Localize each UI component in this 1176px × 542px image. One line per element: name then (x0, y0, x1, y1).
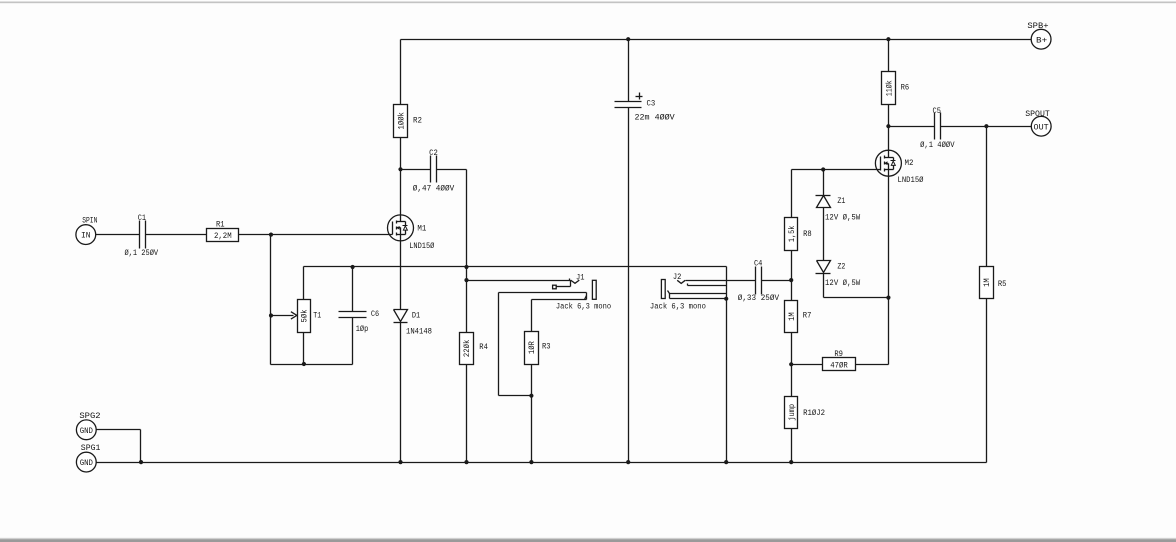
svg-text:GND: GND (80, 426, 93, 436)
svg-text:Ø,1 25ØV: Ø,1 25ØV (124, 248, 158, 258)
svg-text:11Øk: 11Øk (885, 80, 895, 96)
svg-text:R2: R2 (413, 116, 422, 126)
svg-text:C3: C3 (647, 99, 656, 109)
svg-text:LND15Ø: LND15Ø (898, 175, 924, 185)
svg-text:D1: D1 (412, 311, 420, 321)
svg-text:R5: R5 (998, 279, 1007, 289)
svg-text:R9: R9 (834, 349, 843, 359)
svg-text:Ø,47 4ØØV: Ø,47 4ØØV (413, 184, 455, 194)
svg-text:Ø,1 4ØØV: Ø,1 4ØØV (920, 140, 955, 150)
svg-text:C4: C4 (754, 258, 763, 268)
svg-text:IN: IN (81, 231, 91, 241)
svg-text:12V Ø,5W: 12V Ø,5W (825, 213, 861, 223)
svg-text:1,5k: 1,5k (787, 226, 797, 243)
svg-text:1ØR: 1ØR (527, 341, 537, 354)
svg-text:T1: T1 (313, 310, 321, 320)
svg-text:Ø,33 25ØV: Ø,33 25ØV (738, 293, 780, 303)
svg-text:SPG1: SPG1 (81, 443, 101, 453)
svg-text:J1: J1 (576, 272, 585, 282)
svg-text:R1: R1 (216, 219, 225, 229)
svg-text:R4: R4 (479, 342, 488, 352)
svg-text:12V Ø,5W: 12V Ø,5W (825, 278, 861, 288)
svg-text:1M: 1M (982, 278, 992, 287)
svg-text:SPIN: SPIN (82, 216, 97, 226)
svg-text:1N4148: 1N4148 (406, 326, 432, 336)
svg-text:2,2M: 2,2M (214, 231, 232, 241)
svg-text:R3: R3 (542, 342, 551, 352)
svg-text:1M: 1M (787, 312, 797, 321)
svg-text:R1ØJ2: R1ØJ2 (803, 408, 825, 418)
svg-text:R6: R6 (901, 82, 910, 92)
svg-text:OUT: OUT (1034, 123, 1049, 133)
svg-text:R8: R8 (803, 229, 812, 239)
svg-text:jump: jump (787, 404, 797, 421)
svg-text:Jack 6,3 mono: Jack 6,3 mono (650, 301, 706, 311)
svg-text:M1: M1 (417, 224, 426, 234)
svg-text:LND15Ø: LND15Ø (409, 241, 434, 251)
svg-text:SPG2: SPG2 (79, 411, 100, 421)
svg-text:1ØØk: 1ØØk (397, 112, 407, 130)
svg-text:SPOUT: SPOUT (1025, 109, 1050, 119)
svg-text:J2: J2 (673, 272, 682, 282)
svg-text:SPB+: SPB+ (1027, 21, 1048, 31)
svg-text:C6: C6 (371, 309, 379, 319)
svg-text:C5: C5 (933, 106, 941, 116)
svg-text:C2: C2 (429, 148, 438, 158)
svg-text:R7: R7 (803, 311, 812, 321)
svg-text:1Øp: 1Øp (356, 324, 369, 334)
svg-text:B+: B+ (1036, 35, 1047, 45)
svg-text:C1: C1 (138, 213, 146, 223)
svg-text:22m 4ØØV: 22m 4ØØV (635, 113, 676, 123)
svg-text:47ØR: 47ØR (830, 360, 848, 370)
svg-text:Z2: Z2 (837, 261, 845, 271)
svg-text:5Øk: 5Øk (300, 310, 310, 323)
svg-text:Jack 6,3 mono: Jack 6,3 mono (556, 301, 611, 311)
svg-text:M2: M2 (905, 158, 914, 168)
svg-text:22Øk: 22Øk (462, 340, 472, 358)
svg-text:GND: GND (80, 458, 93, 468)
svg-text:Z1: Z1 (837, 196, 845, 206)
